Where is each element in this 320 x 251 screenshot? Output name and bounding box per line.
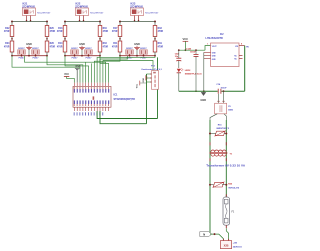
svg-text:C5: C5 [228,106,232,108]
wire ground bus right [221,90,244,92]
transistor Q21 [71,48,79,60]
wire IC pin5 branch [85,62,87,82]
wire IC bottom to right bus [97,111,157,119]
transistor Q12 [32,48,40,60]
svg-text:IC1: IC1 [114,94,119,97]
svg-text:100nF: 100nF [190,52,197,54]
capacitor C3 X2 box [215,91,234,114]
varistor R20 [209,182,240,190]
fuse F1 [223,194,235,228]
svg-text:100nF: 100nF [221,88,228,90]
svg-text:15B0: 15B0 [228,110,234,112]
resistor R11 [112,41,122,56]
svg-text:VCC: VCC [64,73,69,76]
wire IC bottom to cap C6 [100,111,147,124]
svg-text:PC817: PC817 [141,58,147,60]
svg-text:X2B: X2B [224,245,229,248]
wire regulator GND pins down [203,52,205,91]
resistor R19 [153,41,163,56]
resistor R13 [57,22,67,42]
svg-text:R26: R26 [50,43,55,45]
svg-text:Relay SPDT 24V: Relay SPDT 24V [145,11,159,14]
wire mains rail right [225,120,227,197]
wire L to connector [226,228,228,240]
svg-text:Relay SPDT 24V: Relay SPDT 24V [90,11,104,14]
svg-text:GND: GND [143,77,145,82]
svg-text:R10: R10 [103,28,108,30]
wire N to connector [210,233,223,241]
svg-text:R20: R20 [228,184,233,186]
wire mains rail left [209,120,211,234]
wire emitter bus block 2 [64,55,101,57]
resistor R22 [4,22,14,42]
IC U1 ST6260B [73,83,135,111]
relay K21 [22,2,51,22]
svg-text:R17: R17 [113,28,118,30]
transistor Q32 [140,48,148,60]
wire relay K23 coil rail [119,21,156,23]
svg-text:PC817: PC817 [72,58,78,60]
svg-text:470R: 470R [103,30,109,33]
svg-text:470R: 470R [50,30,56,33]
wire block2 left to IC pin6 [65,56,89,83]
svg-text:IC2: IC2 [220,34,224,36]
wire VIN drop [245,46,250,92]
ground symbol under regulator [200,90,206,102]
wire emitter bus block 1 [11,55,48,57]
svg-text:R14: R14 [58,42,63,45]
svg-text:F1: F1 [232,211,235,213]
svg-text:BC817: BC817 [126,48,133,50]
capacitor C7 electrolytic [175,50,182,68]
wire block3 left to IC pin8 [94,56,120,83]
svg-text:470R: 470R [57,30,63,33]
svg-text:N: N [203,232,205,236]
capacitor C5 100nF [186,47,199,92]
svg-text:470R: 470R [112,30,118,33]
svg-text:470R: 470R [50,46,56,49]
svg-text:P13: P13 [151,65,156,67]
svg-text:C1A5: C1A5 [186,47,192,50]
svg-text:K23: K23 [131,2,136,6]
capacitor C14 100nF [216,83,227,94]
VCC flag at IC [64,73,74,82]
wire cap feeder horizontal [103,61,153,71]
svg-text:24VDC01: 24VDC01 [233,245,243,248]
wire IC pin7 branch [90,63,92,82]
svg-text:C14: C14 [216,83,221,86]
svg-text:VCC: VCC [182,37,188,41]
ground flag at C6 [143,75,147,82]
ground block 3 [134,42,140,56]
svg-text:BC817: BC817 [85,48,92,50]
svg-text:K21: K21 [23,2,28,6]
resistor R10 [98,22,108,42]
wire block1 right to IC pin4 [47,56,83,83]
wire block1 left to IC pin3 [12,56,80,83]
wire relay K22 coil rail [64,21,101,23]
svg-text:Transformer 9V 0.33 10 VA: Transformer 9V 0.33 10 VA [206,163,246,167]
transistor Q31 [126,48,134,60]
svg-text:R13: R13 [58,28,63,30]
wire cap feeder [102,61,104,83]
svg-text:R18: R18 [158,28,163,30]
svg-text:L78L05ACD/TR: L78L05ACD/TR [206,37,224,40]
IC U1 bottom pin labels [74,112,104,115]
svg-text:BC817: BC817 [32,48,39,50]
svg-text:K22: K22 [76,2,81,6]
resistor R20 [45,22,55,42]
svg-text:R11: R11 [113,43,118,45]
svg-text:BC817: BC817 [18,48,25,50]
svg-text:ST6260BD(DIP)TR: ST6260BD(DIP)TR [114,98,136,101]
LED D1 [177,68,203,91]
svg-text:470R: 470R [158,30,164,33]
wire ground bus left [179,90,218,92]
wire top right drop [157,57,159,118]
svg-text:GND: GND [26,42,32,46]
net flag N [200,232,212,237]
wire emitter bus block 3 [119,55,156,57]
svg-text:BC817: BC817 [140,48,147,50]
VCC flag at C6 [137,81,147,89]
svg-text:VDR14-275: VDR14-275 [228,187,240,190]
VCC power symbol [182,37,188,51]
svg-text:R22: R22 [5,28,10,30]
svg-text:470R: 470R [4,46,10,49]
wire block3 Q to IC pin10 [100,56,128,83]
resistor R17 [112,22,122,42]
svg-text:SM4007PL4 16-15: SM4007PL4 16-15 [185,73,203,76]
svg-text:R19: R19 [158,43,163,45]
connector X1 [220,239,242,249]
varistor R15 [209,125,229,137]
svg-text:PC817: PC817 [86,58,92,60]
ground block 1 [26,42,32,56]
wire block1 Q1 to IC pin5 [25,56,106,83]
svg-text:470R: 470R [158,46,164,49]
relay K22 [75,2,104,22]
svg-text:470R: 470R [57,46,63,49]
svg-text:GND: GND [134,42,140,46]
transformer value label [206,163,246,167]
svg-text:R20: R20 [50,28,55,30]
wire X2 cap to varistor rails [210,114,226,120]
svg-text:GND: GND [200,98,206,102]
wire block3 right long [97,56,155,83]
resistor R18 [153,22,163,42]
ground block 2 [79,42,85,56]
transistor Q11 [18,48,26,60]
svg-text:470R: 470R [4,30,10,33]
svg-text:GND: GND [75,65,81,68]
svg-text:VCC: VCC [137,83,139,88]
svg-text:+OE: +OE [233,243,238,245]
svg-text:Relay SPDT 24V: Relay SPDT 24V [37,11,51,14]
svg-text:R16: R16 [103,43,108,45]
wire block2 right to IC pin7 [100,56,109,83]
svg-text:T1: T1 [230,154,233,156]
voltage regulator IC2 L78L05 [204,34,245,67]
svg-text:VARISTOR 7,5: VARISTOR 7,5 [216,127,229,130]
svg-text:GND: GND [79,42,85,46]
resistor R16 [98,41,108,56]
resistor R26 [45,41,55,56]
svg-text:LED2: LED2 [185,70,191,72]
svg-text:BC817: BC817 [71,48,78,50]
resistor R14 [57,41,67,56]
svg-text:PC817: PC817 [19,58,25,60]
svg-text:470R: 470R [103,46,109,49]
wire relay K21 coil rail [11,21,48,23]
svg-text:HV: HV [246,47,250,49]
transistor Q22 [85,48,93,60]
svg-text:PC817: PC817 [33,58,39,60]
svg-text:R24: R24 [5,42,10,45]
ground flag at IC [75,65,81,83]
wire VCC rail [178,46,211,52]
svg-text:R15: R15 [218,125,223,127]
svg-text:1: 1 [207,44,208,46]
capacitor C6 47uF module [142,65,162,123]
resistor R24 [4,41,14,56]
svg-text:470R: 470R [112,46,118,49]
transformer T1 [210,142,233,161]
relay K23 [130,2,159,22]
